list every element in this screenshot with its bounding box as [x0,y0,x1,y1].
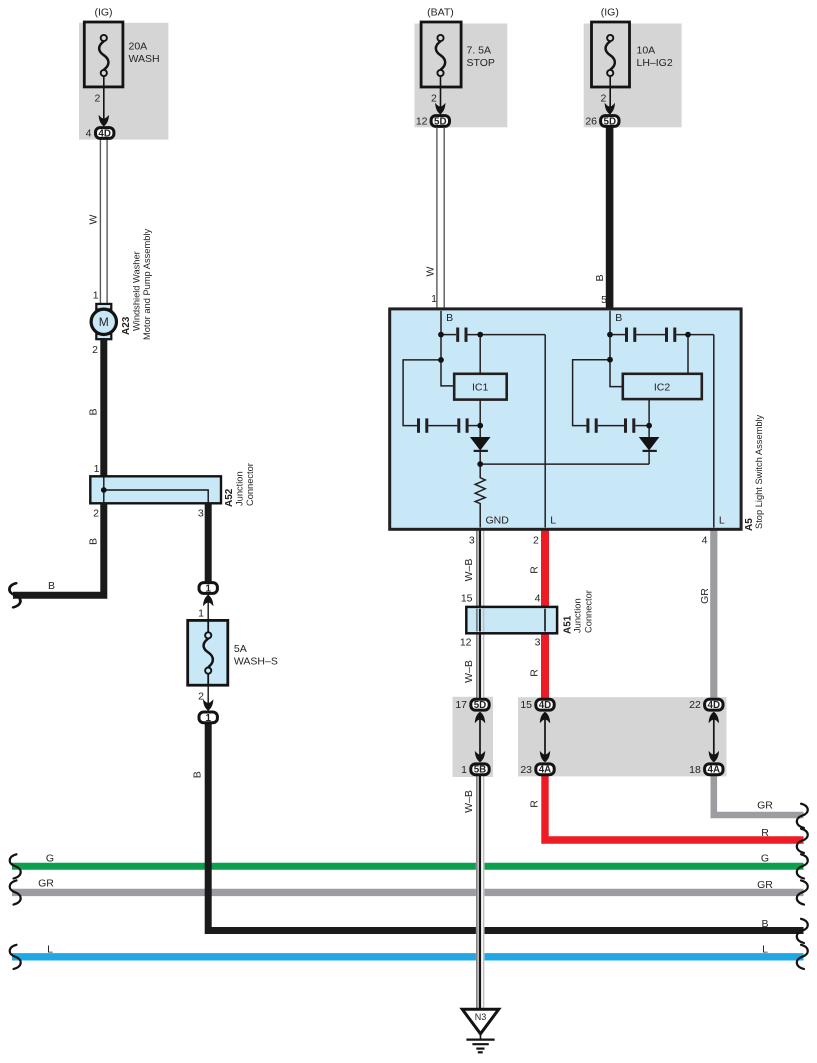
svg-text:7. 5A: 7. 5A [467,45,492,57]
svg-text:Connector: Connector [245,463,255,506]
svg-text:B: B [48,580,55,592]
svg-text:Junction: Junction [235,471,245,506]
svg-text:5D: 5D [604,116,617,127]
svg-text:A52: A52 [224,488,235,507]
svg-text:12: 12 [460,637,472,649]
svg-text:GND: GND [486,515,510,527]
svg-text:L: L [47,944,53,956]
svg-text:18: 18 [689,764,701,776]
svg-text:23: 23 [520,764,532,776]
svg-text:(IG): (IG) [601,7,619,19]
svg-text:WASH–S: WASH–S [234,656,278,668]
svg-text:Motor and Pump Assembly: Motor and Pump Assembly [142,229,152,340]
svg-text:B: B [88,538,100,545]
svg-text:W: W [88,214,100,224]
svg-text:4: 4 [86,128,92,140]
svg-text:10A: 10A [637,45,656,57]
svg-text:R: R [529,669,541,677]
svg-text:2: 2 [92,344,98,356]
svg-text:G: G [46,853,54,865]
svg-text:20A: 20A [129,41,148,53]
svg-text:26: 26 [585,116,597,128]
svg-text:Junction: Junction [573,598,583,633]
svg-text:R: R [529,566,541,574]
svg-text:12: 12 [416,116,428,128]
svg-text:B: B [192,771,204,778]
svg-text:W–B: W–B [463,660,475,683]
svg-text:4D: 4D [98,128,111,139]
svg-text:GR: GR [38,878,54,890]
svg-text:B: B [446,312,453,324]
svg-text:LH–IG2: LH–IG2 [637,57,673,69]
svg-text:(IG): (IG) [94,7,112,19]
svg-text:2: 2 [198,691,204,703]
svg-text:4A: 4A [539,765,552,776]
svg-text:L: L [719,515,725,527]
svg-text:1: 1 [205,713,211,724]
svg-text:Stop Light Switch Assembly: Stop Light Switch Assembly [754,414,764,529]
svg-text:IC1: IC1 [472,381,489,393]
svg-text:B: B [615,312,622,324]
svg-text:3: 3 [469,534,475,546]
svg-text:4D: 4D [539,700,552,711]
svg-text:2: 2 [601,93,607,105]
svg-text:1: 1 [461,764,467,776]
svg-text:2: 2 [533,534,539,546]
svg-text:(BAT): (BAT) [427,7,454,19]
svg-text:Windshield Washer: Windshield Washer [132,251,142,331]
svg-text:W–B: W–B [463,559,475,582]
svg-text:3: 3 [535,637,541,649]
svg-text:G: G [761,853,769,865]
svg-text:STOP: STOP [467,57,495,69]
svg-text:5A: 5A [234,643,247,655]
svg-text:1: 1 [431,293,437,305]
svg-text:2: 2 [93,507,99,519]
svg-text:1: 1 [198,608,204,620]
svg-text:W–B: W–B [463,790,475,813]
svg-text:GR: GR [757,879,773,891]
svg-text:17: 17 [455,699,467,711]
svg-text:M: M [99,315,109,329]
svg-text:GR: GR [757,800,773,812]
svg-text:B: B [761,918,768,930]
svg-text:L: L [762,944,768,956]
svg-text:IC2: IC2 [654,381,671,393]
svg-text:Connector: Connector [584,590,594,633]
svg-text:1: 1 [93,290,99,302]
svg-text:5D: 5D [474,700,487,711]
svg-text:3: 3 [198,507,204,519]
svg-text:4: 4 [702,534,708,546]
svg-text:2: 2 [431,93,437,105]
svg-text:15: 15 [461,592,473,604]
svg-text:1: 1 [205,583,211,594]
svg-text:15: 15 [520,699,532,711]
svg-text:5: 5 [601,294,607,306]
svg-text:N3: N3 [475,1012,487,1022]
svg-text:A23: A23 [121,316,132,335]
svg-text:2: 2 [95,93,101,105]
svg-text:B: B [88,408,100,415]
svg-text:22: 22 [689,699,701,711]
svg-text:4: 4 [535,592,541,604]
svg-text:WASH: WASH [129,53,160,65]
svg-text:1: 1 [94,463,100,475]
svg-text:GR: GR [699,588,711,604]
svg-text:5B: 5B [474,765,487,776]
svg-text:4A: 4A [708,765,721,776]
svg-text:B: B [594,274,606,281]
svg-text:W: W [425,266,437,276]
svg-text:R: R [761,827,769,839]
svg-text:L: L [550,515,556,527]
svg-text:5D: 5D [434,116,447,127]
svg-text:4D: 4D [708,700,721,711]
svg-text:R: R [529,800,541,808]
